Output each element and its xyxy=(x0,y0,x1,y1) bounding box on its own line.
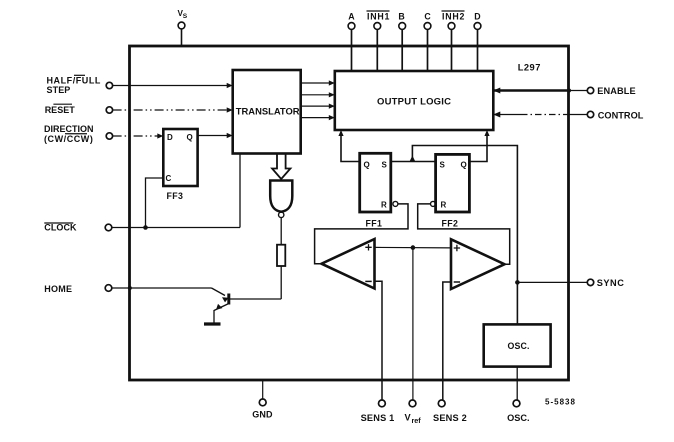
node HALF/FULL STEP input xyxy=(47,75,233,95)
svg-text:INH2: INH2 xyxy=(442,11,465,21)
node A terminal xyxy=(348,11,355,71)
svg-text:FF1: FF1 xyxy=(366,219,383,229)
node D terminal xyxy=(474,11,481,71)
node SENS2 terminal xyxy=(433,400,467,423)
junction clock/FF3-C xyxy=(143,225,148,230)
svg-text:OUTPUT LOGIC: OUTPUT LOGIC xyxy=(377,97,451,108)
node INH2 terminal xyxy=(442,11,466,71)
main IC boundary box xyxy=(130,46,569,380)
block OSC xyxy=(484,324,551,366)
svg-text:(CW/CCW): (CW/CCW) xyxy=(44,134,93,144)
node SENS1 terminal xyxy=(361,400,395,423)
svg-text:V: V xyxy=(405,412,412,422)
node RESET input xyxy=(45,104,233,115)
wire FF1 R to comparator1 output xyxy=(315,204,408,264)
svg-text:FF2: FF2 xyxy=(442,219,459,229)
flip-flop FF3 xyxy=(163,129,197,201)
flip-flop FF1 xyxy=(360,153,398,228)
wire clock to translator bottom xyxy=(239,154,241,228)
flip-flop FF2 xyxy=(431,154,470,228)
node HOME input xyxy=(44,284,211,294)
svg-text:CLOCK: CLOCK xyxy=(44,223,77,233)
node INH1 terminal xyxy=(367,11,391,71)
svg-text:C: C xyxy=(424,11,431,21)
wire S junction up and over to oscillator line xyxy=(412,146,517,325)
wire FF3 Q to translator xyxy=(198,135,229,137)
svg-text:OSC.: OSC. xyxy=(508,341,530,351)
svg-text:FF3: FF3 xyxy=(167,191,184,201)
svg-text:SENS 1: SENS 1 xyxy=(361,413,395,423)
resistor R (home pull) xyxy=(277,245,285,266)
junction arrow on S line xyxy=(409,156,415,162)
wire comparator2 - input to SENS2 xyxy=(443,282,451,400)
node B terminal xyxy=(398,11,405,71)
svg-text:INH1: INH1 xyxy=(367,11,390,21)
svg-text:D: D xyxy=(474,11,480,21)
svg-text:ref: ref xyxy=(412,416,422,425)
node ENABLE input xyxy=(493,86,635,96)
comparator 1 (points left) xyxy=(322,239,375,289)
svg-text:Q: Q xyxy=(461,161,467,170)
node DIRECTION (CW/CCW) input xyxy=(44,124,163,144)
svg-text:S: S xyxy=(440,161,446,170)
wire translator to output-logic bus (4 arrows) xyxy=(301,83,331,118)
svg-text:SYNC: SYNC xyxy=(597,278,625,288)
node OSC terminal xyxy=(507,400,529,423)
gate NAND (pointing down) xyxy=(270,181,292,218)
wire Vref to comparator + inputs xyxy=(375,246,452,249)
svg-text:C: C xyxy=(166,174,172,183)
svg-text:HALF/FULL: HALF/FULL xyxy=(47,75,101,85)
svg-text:RESET: RESET xyxy=(45,105,76,115)
svg-text:D: D xyxy=(167,133,173,142)
svg-text:DIRECTION: DIRECTION xyxy=(44,124,94,134)
wire FF3 C to clock line xyxy=(146,178,164,228)
node C terminal xyxy=(424,11,431,71)
svg-text:L297: L297 xyxy=(518,63,541,73)
svg-text:S: S xyxy=(183,13,188,20)
node VS terminal xyxy=(178,9,188,46)
wire FF1 Q up to output logic xyxy=(341,133,360,162)
svg-text:R: R xyxy=(441,201,447,210)
svg-text:HOME: HOME xyxy=(44,284,72,294)
wire OSC to terminal xyxy=(516,367,518,400)
svg-text:ENABLE: ENABLE xyxy=(597,86,635,96)
svg-text:SENS 2: SENS 2 xyxy=(433,413,467,423)
svg-text:STEP: STEP xyxy=(47,85,71,95)
comparator 2 (points right) xyxy=(451,239,505,289)
wire resistor to transistor collector xyxy=(280,266,282,299)
big hollow arrow translator to NAND xyxy=(272,155,290,180)
svg-text:S: S xyxy=(382,161,388,170)
wire NAND out to resistor xyxy=(280,218,282,245)
svg-text:R: R xyxy=(381,201,387,210)
svg-text:GND: GND xyxy=(252,410,273,420)
ground symbol xyxy=(204,322,221,325)
transistor Q1 (HOME open collector) xyxy=(212,288,282,323)
svg-text:Q: Q xyxy=(364,161,370,170)
node Vref terminal xyxy=(405,400,422,425)
node CLOCK input xyxy=(44,223,240,233)
svg-text:CONTROL: CONTROL xyxy=(598,110,644,120)
wire FF2 R to comparator2 output xyxy=(418,204,510,264)
block OUTPUT LOGIC xyxy=(335,71,494,130)
svg-text:B: B xyxy=(398,11,404,21)
node SYNC output xyxy=(515,278,624,288)
svg-text:OSC.: OSC. xyxy=(507,413,529,423)
svg-text:Q: Q xyxy=(187,133,193,142)
node CONTROL input xyxy=(493,110,644,120)
wire FF2 Q up to output logic xyxy=(469,133,487,162)
wire FF1 S to FF2 S xyxy=(391,161,436,163)
block TRANSLATOR xyxy=(233,70,301,154)
wire comparator1 - input to SENS1 xyxy=(375,281,383,400)
svg-text:A: A xyxy=(348,11,355,21)
svg-text:5-5838: 5-5838 xyxy=(545,398,576,407)
svg-text:TRANSLATOR: TRANSLATOR xyxy=(236,106,300,117)
node GND terminal xyxy=(252,380,273,420)
